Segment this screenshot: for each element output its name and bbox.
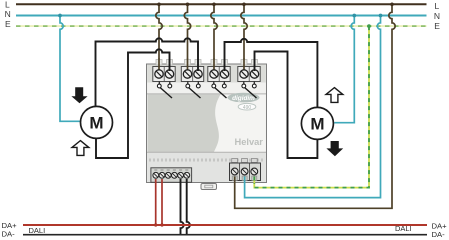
arrow down filled (right motor) bbox=[326, 141, 343, 156]
svg-text:E: E bbox=[5, 19, 11, 29]
terminal block 1 (relay output) bbox=[153, 59, 175, 82]
junction dot DA+ wire 2 bbox=[160, 223, 163, 226]
svg-text:E: E bbox=[434, 21, 440, 31]
svg-text:DA-: DA- bbox=[432, 230, 446, 239]
wire stub blue into mains block bbox=[244, 177, 246, 184]
junction dot N-drop right bbox=[352, 14, 356, 18]
svg-text:490: 490 bbox=[243, 105, 252, 111]
svg-text:Helvar: Helvar bbox=[235, 137, 264, 147]
wire DA- from module (black) 1 with hop over DA+ bbox=[181, 179, 184, 235]
svg-text:DALI: DALI bbox=[395, 224, 412, 233]
bus DA- (black) bbox=[23, 234, 427, 236]
wire DA+ from module (red) 1 bbox=[155, 179, 157, 225]
control block screws bbox=[153, 172, 190, 178]
digidim 490 oval bbox=[238, 103, 256, 111]
bus N (neutral, blue) bbox=[16, 15, 427, 17]
wire L-drop 3 (brown to relay terminal 3) bbox=[211, 4, 217, 71]
control block pin labels bbox=[154, 169, 188, 170]
junction dot L to module bbox=[390, 3, 394, 7]
bus DA+ (red) bbox=[23, 224, 427, 226]
junction dot L-drop 2 bbox=[186, 3, 190, 7]
bottom-left terminal block (DALI/control) bbox=[151, 168, 192, 183]
wire N-drop to left motor (blue) bbox=[60, 16, 81, 122]
motor M1 (left) bbox=[81, 106, 113, 138]
screw 4b bbox=[250, 70, 258, 78]
junction dot L-drop 4 bbox=[242, 3, 246, 7]
junction dot N to module bbox=[379, 14, 383, 18]
bus E (earth, green/yellow) bbox=[16, 25, 427, 27]
svg-text:M: M bbox=[89, 114, 103, 133]
wire left motor top to relay 2 (black) bbox=[96, 38, 199, 106]
wire L-drop 2 (brown to relay terminal 2) bbox=[184, 4, 190, 71]
module body (Helvar digidim 490 relay unit) bbox=[147, 64, 267, 183]
terminal block 3 (relay output) bbox=[208, 59, 230, 82]
wire left motor bottom to relay 1 (black) bbox=[96, 49, 170, 158]
wire E to module earth terminal (green/yellow) bbox=[254, 26, 369, 188]
arrow up hollow (right motor) bbox=[326, 88, 343, 103]
svg-text:N: N bbox=[434, 11, 440, 21]
svg-text:N: N bbox=[5, 9, 11, 19]
wire L-drop 4 (brown to relay terminal 4) bbox=[241, 4, 247, 71]
mains block screws bbox=[231, 168, 257, 175]
junction dot N-drop left bbox=[58, 14, 62, 18]
motor M2 (right) bbox=[301, 107, 333, 139]
wire DA+ from module (red) 2 bbox=[161, 179, 163, 225]
bottom-right terminal block (mains input) bbox=[230, 159, 261, 181]
mains block wire pads bbox=[232, 176, 257, 181]
screw 1a bbox=[155, 70, 163, 78]
junction dot DA+ wire 1 bbox=[154, 223, 157, 226]
wire entry clamps at module top bbox=[156, 60, 258, 66]
svg-text:DALI: DALI bbox=[29, 226, 46, 235]
relay contact 1 bbox=[157, 82, 172, 99]
wire L-drop 1 (brown to relay terminal 1) bbox=[156, 4, 162, 71]
wire right motor top to relay 3 (black) bbox=[225, 39, 318, 108]
DIN rail clip bbox=[201, 184, 217, 190]
terminal block 2 (relay output) bbox=[181, 59, 203, 82]
arrow down filled (left motor up-direction) bbox=[71, 87, 87, 103]
wire right motor bottom to relay 4 (black) bbox=[255, 52, 318, 159]
screw 1b bbox=[165, 70, 173, 78]
svg-text:M: M bbox=[310, 115, 324, 134]
junction dot L-drop 1 bbox=[157, 3, 161, 7]
relay contact 4 bbox=[242, 82, 257, 99]
wire stub green/yellow into mains block bbox=[253, 177, 255, 184]
terminal block 4 (relay output) bbox=[238, 59, 260, 82]
screw 2b bbox=[194, 70, 202, 78]
svg-text:digidim: digidim bbox=[232, 95, 255, 102]
relay contact 2 bbox=[186, 82, 201, 99]
digidim logo oval bbox=[228, 93, 260, 103]
arrow up hollow (left motor down-direction) bbox=[72, 141, 89, 156]
screw 3b bbox=[220, 70, 228, 78]
screw 4a bbox=[240, 70, 248, 78]
screw 3a bbox=[210, 70, 218, 78]
wire N to module neutral terminal (blue) bbox=[245, 16, 381, 198]
screw 2a bbox=[183, 70, 191, 78]
svg-text:DA-: DA- bbox=[2, 230, 16, 239]
junction dot E-drop bbox=[367, 24, 371, 28]
bus L (mains live, brown) bbox=[16, 3, 427, 5]
svg-text:L: L bbox=[435, 1, 440, 11]
relay contact 3 bbox=[212, 82, 227, 99]
wire stub brown into mains block bbox=[234, 177, 236, 184]
module ventilation tick row bbox=[150, 159, 262, 162]
junction dot L-drop 3 bbox=[212, 3, 216, 7]
wire L to module live terminal (brown) bbox=[235, 4, 396, 208]
svg-text:DA+: DA+ bbox=[432, 221, 448, 230]
svg-text:L: L bbox=[5, 0, 10, 9]
wire DA- from module (black) 2 with hop over DA+ bbox=[187, 179, 190, 235]
wire N-drop to right motor (blue) bbox=[334, 16, 354, 123]
